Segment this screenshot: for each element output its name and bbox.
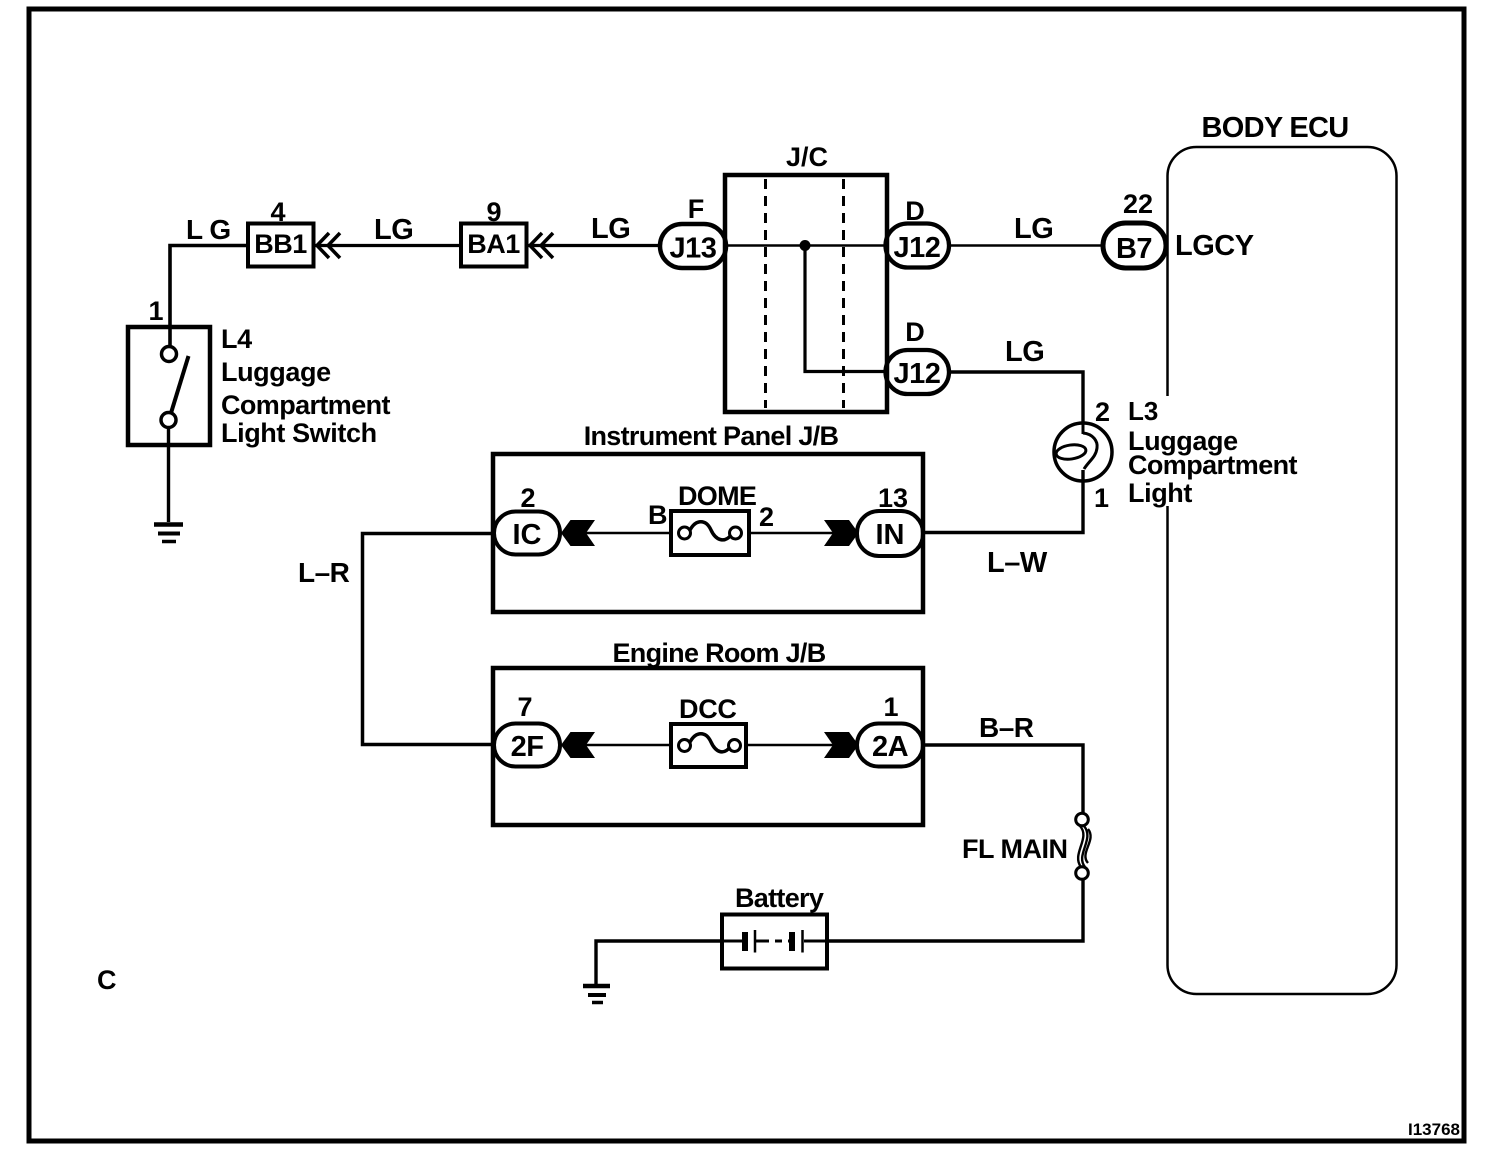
svg-text:2: 2 bbox=[1095, 397, 1110, 427]
svg-text:F: F bbox=[688, 194, 705, 224]
switch L4 Luggage Compartment Light Switch bbox=[128, 327, 210, 445]
svg-text:IC: IC bbox=[513, 519, 542, 551]
wire: LG from switch to BB1 (top-left corner segment) bbox=[170, 246, 249, 348]
svg-text:J12: J12 bbox=[894, 232, 941, 264]
junction block J/C bbox=[725, 142, 887, 412]
svg-text:L3: L3 bbox=[1128, 396, 1158, 426]
svg-text:DCC: DCC bbox=[679, 694, 737, 724]
svg-text:Engine Room J/B: Engine Room J/B bbox=[612, 638, 825, 668]
svg-text:LG: LG bbox=[1014, 213, 1053, 245]
wire: B-R from 2A to FL MAIN bbox=[923, 745, 1083, 814]
wire from arrow to DCC fuse bbox=[562, 744, 671, 747]
wire from node down to lower J12 bbox=[805, 246, 886, 372]
svg-text:Instrument Panel J/B: Instrument Panel J/B bbox=[584, 421, 839, 451]
connector J12 lower (pin D) bbox=[886, 350, 950, 394]
svg-text:Luggage: Luggage bbox=[221, 357, 331, 387]
svg-text:9: 9 bbox=[486, 197, 501, 227]
fusible link FL MAIN bbox=[1076, 813, 1091, 879]
svg-text:L–W: L–W bbox=[987, 547, 1048, 579]
svg-text:BODY ECU: BODY ECU bbox=[1202, 112, 1349, 144]
BODY ECU block bbox=[1168, 112, 1397, 994]
connector 2A (pin 1) bbox=[857, 724, 923, 767]
junction node dot bbox=[800, 240, 811, 251]
svg-text:Light Switch: Light Switch bbox=[221, 418, 377, 448]
Engine Room J/B box bbox=[493, 638, 923, 825]
svg-text:BA1: BA1 bbox=[467, 229, 520, 259]
svg-text:2: 2 bbox=[520, 483, 535, 513]
svg-text:DOME: DOME bbox=[678, 481, 756, 511]
wire: LG between BA1 and J13 bbox=[527, 244, 660, 247]
wire from DCC to 2A arrow bbox=[746, 744, 858, 747]
arrow toward 2A bbox=[824, 732, 859, 758]
svg-text:2F: 2F bbox=[511, 731, 544, 763]
svg-text:4: 4 bbox=[270, 197, 285, 227]
svg-text:FL MAIN: FL MAIN bbox=[962, 834, 1068, 864]
svg-text:LGCY: LGCY bbox=[1175, 230, 1254, 262]
battery bbox=[722, 915, 827, 969]
arrow toward IN bbox=[824, 520, 859, 546]
svg-text:B7: B7 bbox=[1116, 233, 1152, 265]
fuse DOME bbox=[671, 511, 749, 555]
svg-text:L4: L4 bbox=[221, 324, 252, 354]
svg-text:I13768: I13768 bbox=[1408, 1120, 1460, 1139]
wire from switch to ground bbox=[167, 428, 170, 523]
wire: L-R from IC to 2F bbox=[363, 534, 495, 745]
J/C internal dashed partition left bbox=[764, 179, 767, 408]
connector 2F (pin 7) bbox=[494, 724, 560, 767]
svg-text:Compartment: Compartment bbox=[1128, 450, 1298, 480]
connector BB1 bbox=[248, 224, 314, 267]
svg-text:C: C bbox=[97, 965, 117, 995]
wire: LG from lower J12 to lamp bbox=[948, 372, 1083, 424]
fuse DCC bbox=[671, 724, 746, 767]
svg-text:L–R: L–R bbox=[298, 557, 350, 588]
label L4 Luggage Compartment Light Switch bbox=[221, 324, 391, 448]
label L3 Luggage Compartment Light bbox=[1128, 396, 1298, 508]
chevron marks at BB1 bbox=[317, 233, 340, 258]
svg-text:B–R: B–R bbox=[979, 712, 1034, 743]
svg-text:1: 1 bbox=[1094, 483, 1109, 513]
svg-text:LG: LG bbox=[374, 214, 413, 246]
chevron marks at BA1 bbox=[530, 233, 553, 258]
svg-text:LG: LG bbox=[591, 213, 630, 245]
wire from arrow to DOME fuse bbox=[562, 532, 671, 535]
arrow toward 2F bbox=[561, 732, 595, 758]
svg-text:13: 13 bbox=[878, 483, 908, 513]
Instrument Panel J/B box bbox=[493, 421, 923, 612]
connector BA1 bbox=[461, 224, 527, 267]
svg-text:7: 7 bbox=[517, 692, 532, 722]
svg-text:1: 1 bbox=[148, 296, 163, 326]
svg-text:Battery: Battery bbox=[735, 883, 824, 913]
wire: L-W from lamp to IN bbox=[923, 470, 1083, 533]
wire: LG from upper J12 to B7 bbox=[948, 244, 1103, 247]
connector IN (pin 13) bbox=[857, 511, 923, 556]
svg-text:LG: LG bbox=[1005, 336, 1044, 368]
svg-text:D: D bbox=[905, 317, 925, 347]
svg-text:IN: IN bbox=[876, 519, 905, 551]
svg-text:B: B bbox=[648, 500, 668, 530]
arrow toward IC bbox=[561, 520, 595, 546]
wire: LG between BB1 and BA1 bbox=[314, 244, 461, 247]
wire through J/C bbox=[727, 244, 886, 247]
svg-text:2A: 2A bbox=[872, 731, 909, 763]
wire from battery to ground bbox=[596, 941, 722, 984]
svg-text:J13: J13 bbox=[670, 233, 717, 265]
connector B7 (BODY ECU pin 22) bbox=[1103, 223, 1166, 268]
svg-text:1: 1 bbox=[883, 692, 898, 722]
wire from FL MAIN to battery bbox=[827, 879, 1083, 941]
ground (battery) bbox=[583, 986, 610, 1003]
J/C internal dashed partition right bbox=[842, 179, 845, 408]
lamp L3 Luggage Compartment Light bbox=[1054, 423, 1112, 481]
svg-text:Compartment: Compartment bbox=[221, 390, 391, 420]
svg-text:Light: Light bbox=[1128, 478, 1192, 508]
svg-text:D: D bbox=[905, 196, 925, 226]
svg-text:J/C: J/C bbox=[786, 142, 828, 172]
connector J12 upper (pin D) bbox=[886, 224, 950, 268]
connector J13 (junction connector pin F) bbox=[660, 224, 726, 268]
connector IC (pin 2) bbox=[494, 512, 560, 555]
svg-text:BB1: BB1 bbox=[254, 229, 307, 259]
svg-text:22: 22 bbox=[1123, 189, 1153, 219]
svg-text:L G: L G bbox=[186, 214, 231, 245]
ground (switch) bbox=[154, 525, 183, 542]
svg-text:J12: J12 bbox=[894, 358, 941, 390]
wire from DOME to IN arrow bbox=[749, 532, 858, 535]
svg-text:2: 2 bbox=[759, 502, 774, 532]
